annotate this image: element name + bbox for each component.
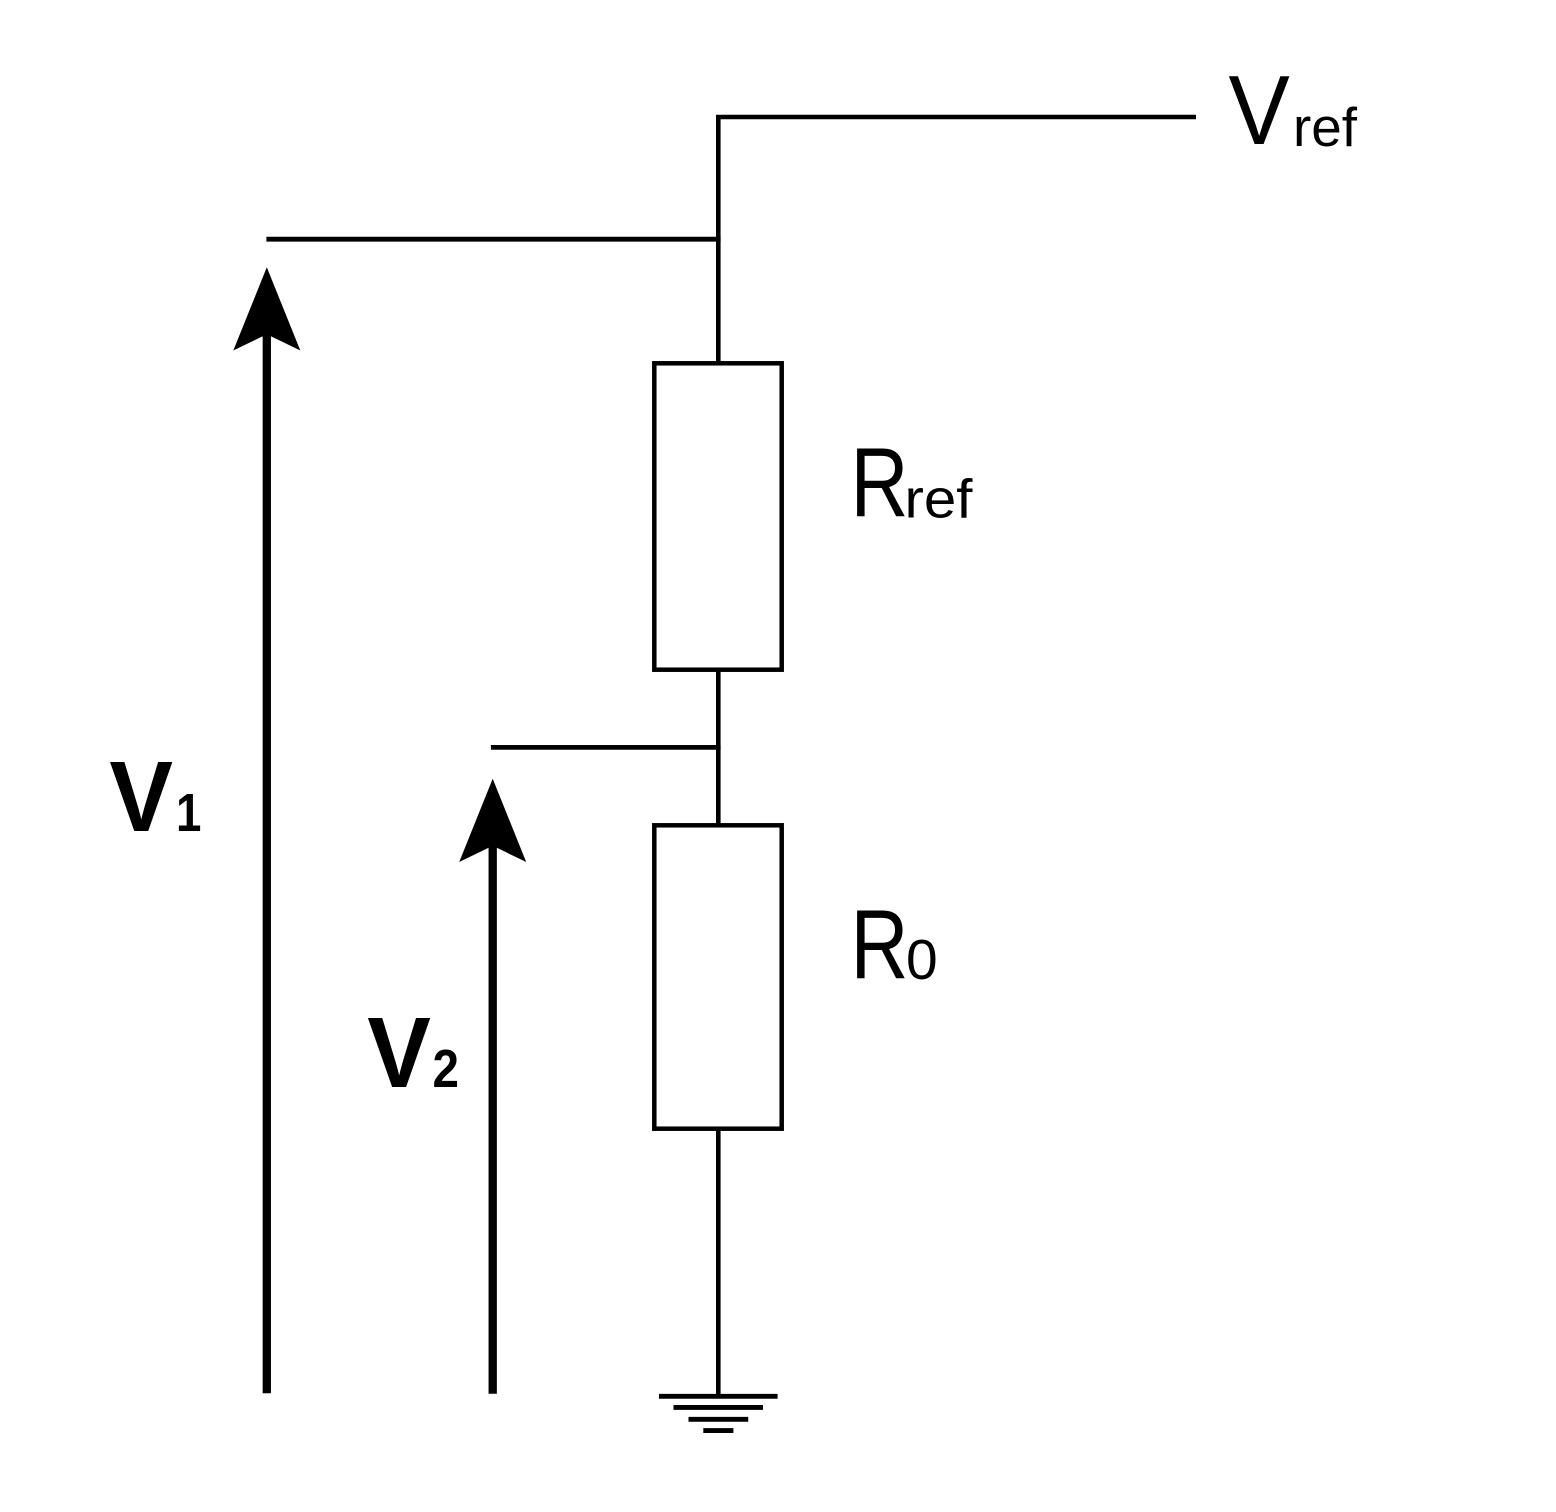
resistor Rref (654, 363, 781, 669)
label V1 (109, 741, 201, 853)
node Vref label (1229, 55, 1358, 165)
wire V1 tap horizontal (266, 237, 720, 242)
label R0 (851, 889, 938, 999)
svg-text:V: V (109, 741, 173, 853)
resistor R0 (654, 825, 781, 1128)
voltage arrow V2 (459, 779, 526, 1394)
svg-text:R: R (851, 889, 909, 999)
label Rref (851, 427, 974, 537)
svg-text:0: 0 (906, 928, 938, 992)
svg-text:V: V (1229, 55, 1290, 165)
ground (659, 1396, 778, 1430)
svg-text:ref: ref (1293, 96, 1358, 158)
svg-text:ref: ref (905, 468, 974, 530)
wire middle segment Rref bottom to R0 top (716, 668, 721, 827)
svg-text:2: 2 (433, 1039, 460, 1099)
wire V2 tap horizontal (491, 745, 721, 750)
label V2 (367, 997, 459, 1109)
svg-text:V: V (367, 997, 431, 1109)
svg-text:R: R (851, 427, 909, 537)
wire bottom segment R0 to ground (716, 1127, 721, 1396)
wire top horizontal to Vref with corner down (718, 117, 1196, 365)
svg-text:1: 1 (176, 783, 201, 843)
voltage arrow V1 (233, 267, 300, 1393)
